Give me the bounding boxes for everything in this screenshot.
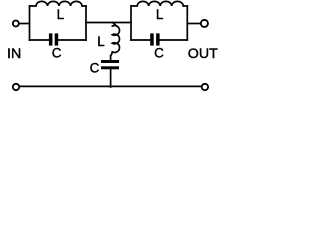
wire cap to bottom rail [110, 69, 112, 87]
left tank left bracket wire [29, 6, 31, 40]
svg-text:IN: IN [7, 46, 21, 62]
capacitor C (middle shunt) [101, 60, 119, 69]
svg-text:OUT: OUT [188, 46, 218, 62]
input port terminal circle [13, 21, 19, 27]
bottom-left port terminal circle [13, 84, 19, 90]
svg-text:L: L [97, 34, 105, 49]
capacitor C (right tank) [150, 33, 159, 45]
wire coil to cap [110, 56, 112, 61]
right tank right bracket wire [186, 6, 188, 40]
bottom return rail wire [20, 85, 202, 87]
right tank left bracket wire [130, 6, 132, 40]
svg-text:L: L [57, 7, 65, 22]
wire bottom-left of right tank [131, 39, 150, 41]
svg-text:C: C [154, 45, 164, 60]
bottom-right port terminal circle [202, 84, 208, 90]
wire bottom-right of left tank [58, 39, 86, 41]
svg-text:C: C [52, 45, 62, 60]
svg-text:L: L [156, 7, 164, 22]
left tank right bracket wire [85, 6, 87, 40]
inductor L (right tank) [131, 1, 187, 6]
wire input to left tank [19, 23, 30, 25]
output port terminal circle [201, 20, 208, 27]
wire between tanks [86, 22, 131, 24]
inductor L (middle shunt, vertical) [111, 23, 120, 56]
capacitor C (left tank) [49, 33, 58, 45]
wire bottom-left of left tank [30, 39, 49, 41]
wire right tank to output [187, 23, 200, 25]
wire bottom-right of right tank [160, 39, 188, 41]
svg-text:C: C [90, 61, 100, 76]
inductor L (left tank) [30, 1, 87, 6]
